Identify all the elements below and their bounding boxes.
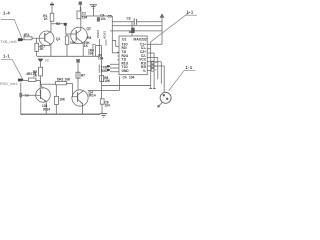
svg-text:104: 104 xyxy=(129,75,135,79)
svg-text:1-1: 1-1 xyxy=(3,53,10,58)
svg-text:1-1: 1-1 xyxy=(187,10,194,15)
svg-text:104: 104 xyxy=(88,51,94,55)
svg-text:C4: C4 xyxy=(123,76,127,80)
svg-text:DR2: DR2 xyxy=(57,78,64,82)
svg-text:10K: 10K xyxy=(104,79,111,83)
svg-text:10K: 10K xyxy=(59,98,66,102)
svg-text:104: 104 xyxy=(98,56,104,60)
svg-text:U1: U1 xyxy=(122,37,126,41)
svg-text:RXD: RXD xyxy=(101,69,108,73)
svg-text:1-4: 1-4 xyxy=(3,11,10,16)
svg-text:Q2: Q2 xyxy=(87,27,91,31)
svg-text:16: 16 xyxy=(129,30,133,34)
svg-text:GND: GND xyxy=(122,69,130,73)
svg-text:104: 104 xyxy=(82,15,88,19)
svg-text:R7: R7 xyxy=(81,73,85,77)
svg-text:C3: C3 xyxy=(127,16,131,20)
svg-text:1K: 1K xyxy=(39,47,44,51)
svg-text:104: 104 xyxy=(105,103,111,107)
svg-text:104: 104 xyxy=(100,17,106,21)
svg-text:R4: R4 xyxy=(87,36,91,40)
svg-text:ADJ1: ADJ1 xyxy=(103,31,107,39)
svg-text:1C: 1C xyxy=(45,59,50,63)
svg-text:Q1: Q1 xyxy=(56,37,60,41)
svg-text:1K: 1K xyxy=(84,44,89,48)
svg-text:10K: 10K xyxy=(70,41,77,45)
svg-text:C5: C5 xyxy=(108,14,112,18)
svg-text:1K: 1K xyxy=(44,17,49,21)
svg-text:10K: 10K xyxy=(65,78,72,82)
svg-text:TXB_net1: TXB_net1 xyxy=(0,40,17,44)
svg-text:1n: 1n xyxy=(25,94,29,98)
svg-text:1-1: 1-1 xyxy=(186,65,193,70)
svg-text:9014: 9014 xyxy=(89,94,96,98)
svg-text:1K: 1K xyxy=(33,73,38,77)
svg-text:MAX232: MAX232 xyxy=(134,37,147,41)
svg-text:9014: 9014 xyxy=(43,107,50,111)
svg-text:VCC2: VCC2 xyxy=(96,30,100,39)
svg-text:RXD_net1: RXD_net1 xyxy=(0,82,18,86)
svg-text:4R1: 4R1 xyxy=(24,33,30,37)
svg-text:R2: R2 xyxy=(56,22,60,26)
svg-text:V-: V- xyxy=(143,69,146,73)
